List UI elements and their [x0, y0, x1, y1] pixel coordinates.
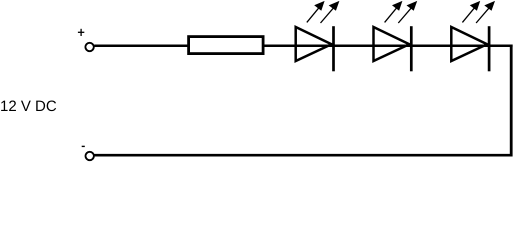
svg-text:12 V DC: 12 V DC: [0, 98, 57, 115]
